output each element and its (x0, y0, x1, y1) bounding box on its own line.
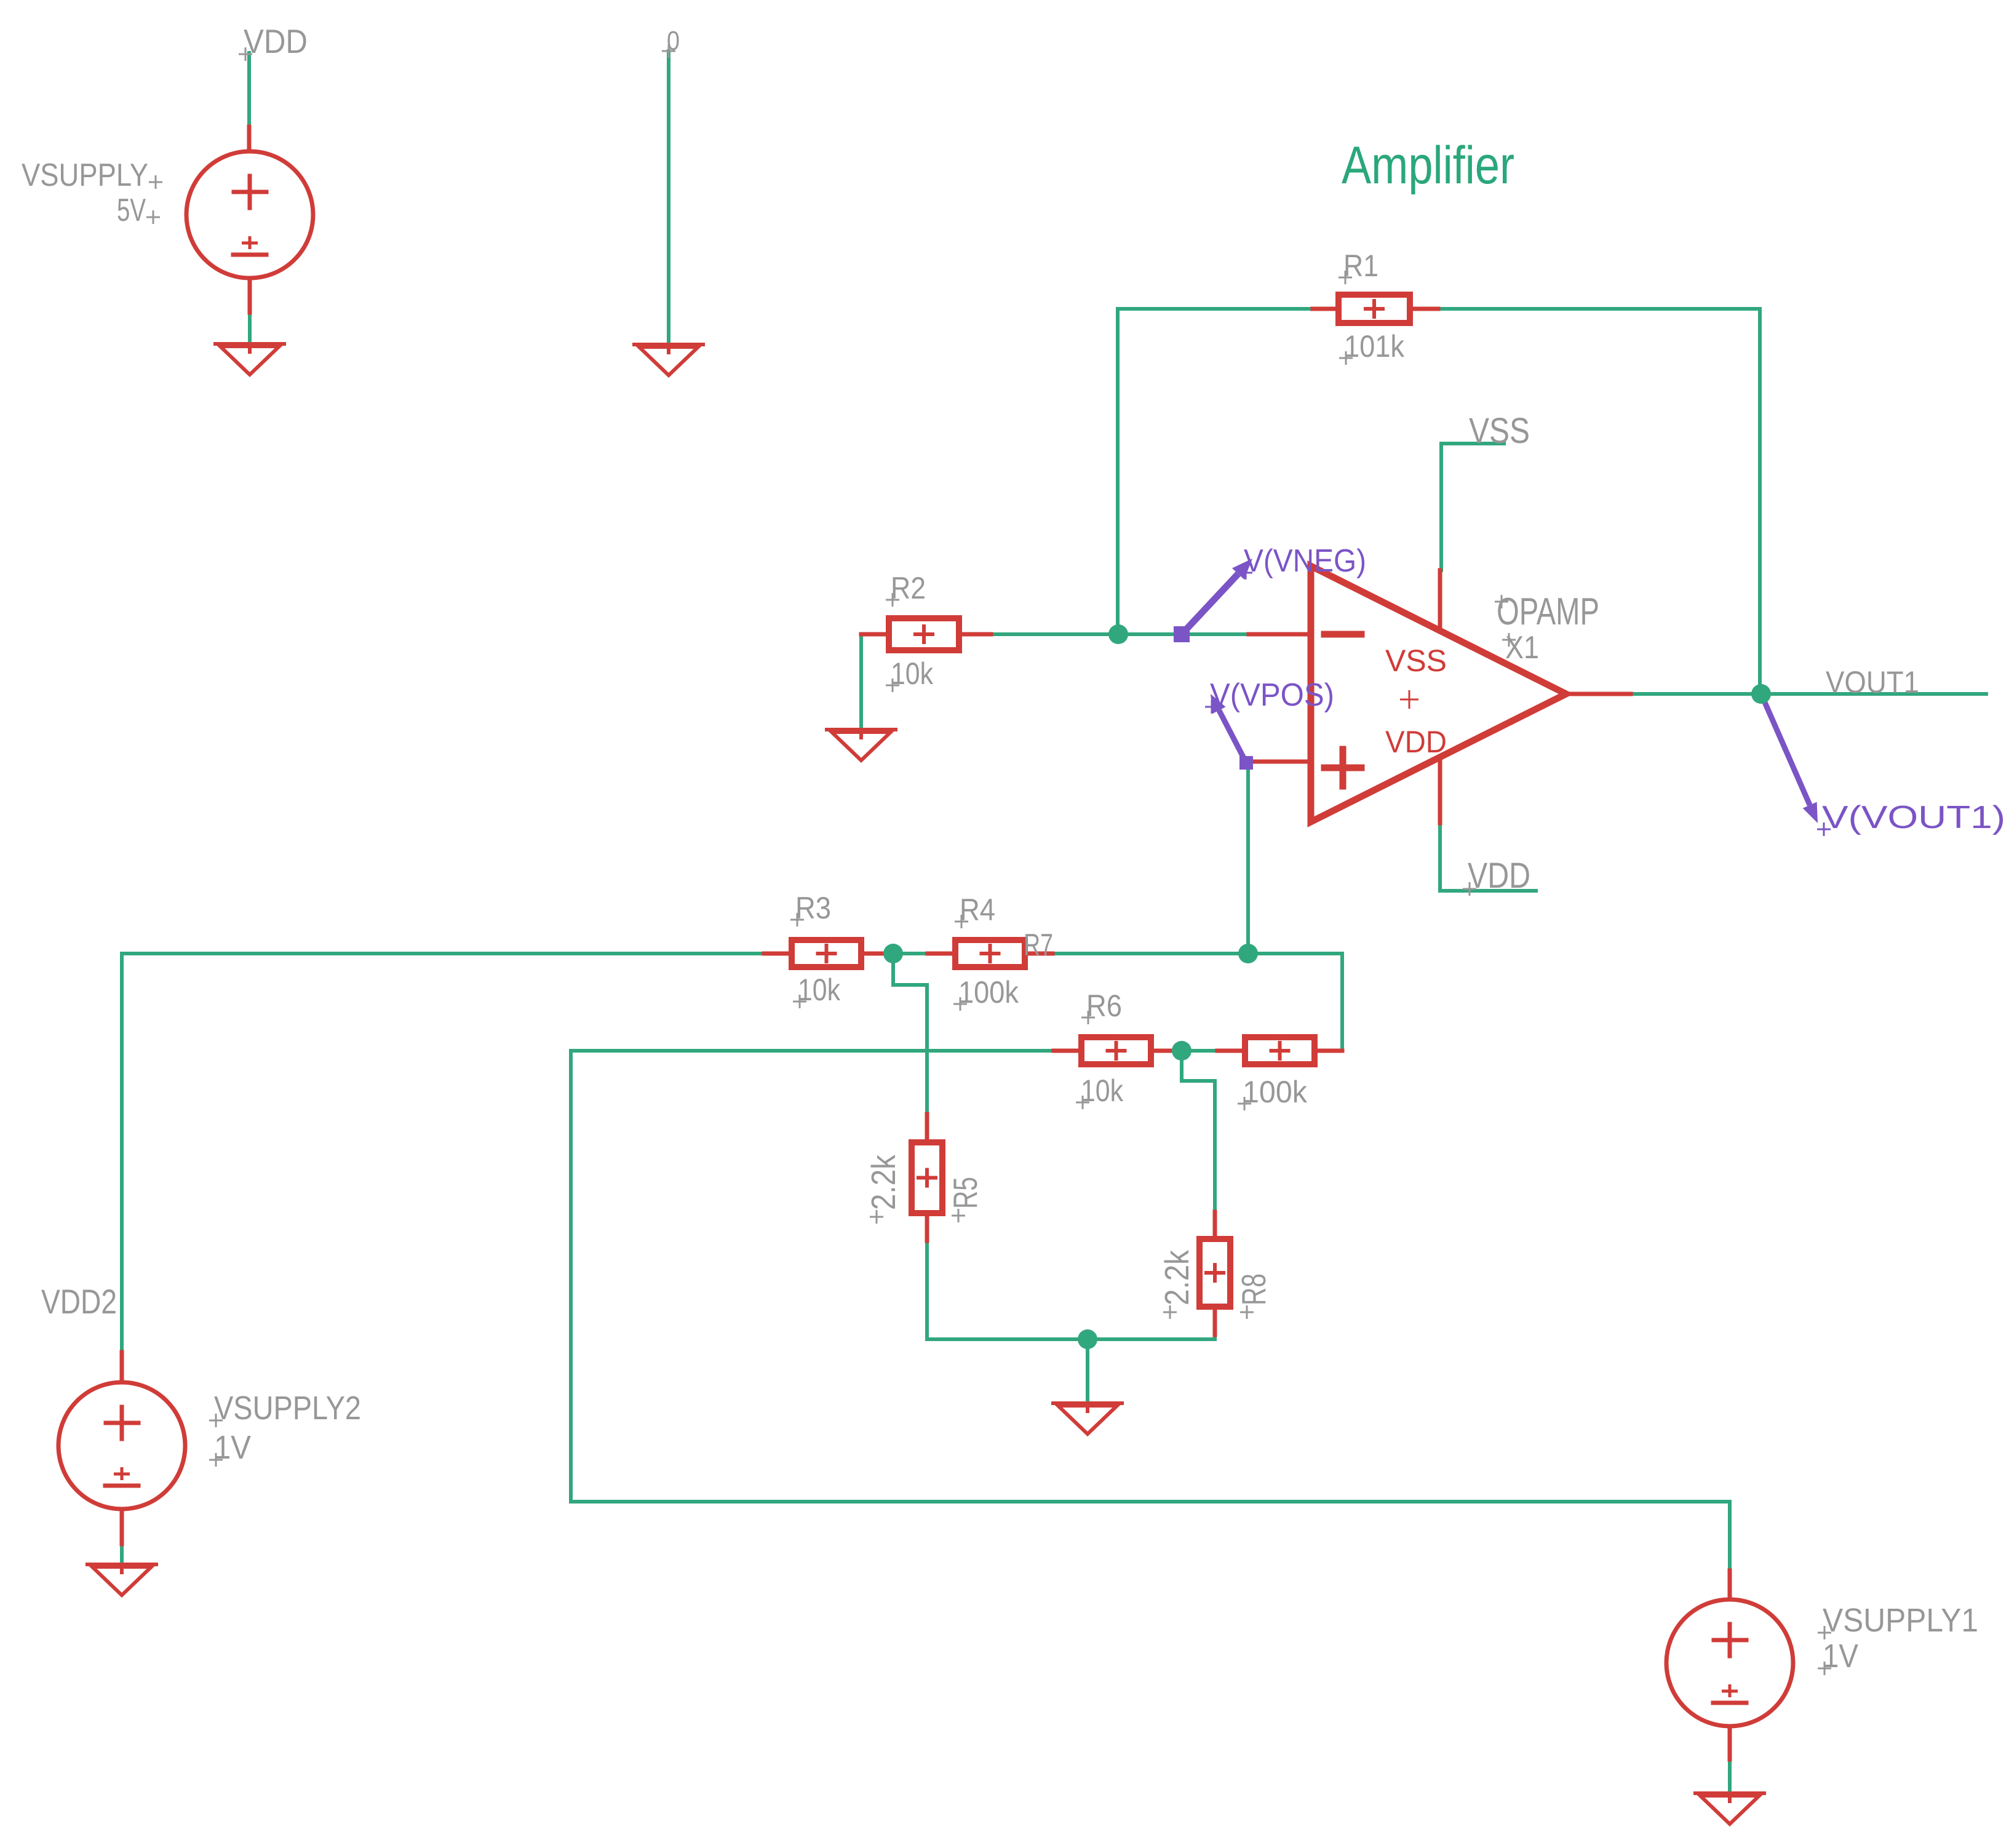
svg-text:VSUPPLY1: VSUPPLY1 (1823, 1602, 1978, 1639)
svg-text:X1: X1 (1505, 630, 1539, 666)
svg-text:R7: R7 (1024, 928, 1053, 962)
svg-text:V(VNEG): V(VNEG) (1244, 543, 1366, 579)
svg-text:VSUPPLY: VSUPPLY (22, 157, 148, 193)
svg-text:Amplifier: Amplifier (1342, 136, 1514, 195)
svg-text:2.2k: 2.2k (864, 1155, 902, 1210)
svg-text:V(VPOS): V(VPOS) (1210, 677, 1334, 713)
svg-text:VSUPPLY2: VSUPPLY2 (214, 1390, 361, 1427)
svg-text:5V: 5V (117, 193, 146, 228)
svg-text:100k: 100k (1243, 1075, 1308, 1109)
svg-text:VOUT1: VOUT1 (1826, 665, 1919, 699)
svg-text:VSS: VSS (1469, 411, 1530, 451)
svg-text:VDD2: VDD2 (41, 1282, 117, 1321)
svg-text:R5: R5 (946, 1177, 984, 1209)
svg-text:OPAMP: OPAMP (1497, 591, 1599, 633)
svg-text:VSS: VSS (1385, 643, 1447, 678)
svg-text:VDD: VDD (1468, 856, 1530, 896)
svg-text:VDD: VDD (1385, 725, 1447, 759)
svg-text:R8: R8 (1235, 1273, 1273, 1305)
svg-text:2.2k: 2.2k (1158, 1250, 1196, 1305)
svg-text:101k: 101k (1344, 329, 1405, 364)
svg-text:VDD: VDD (244, 22, 308, 60)
svg-text:V(VOUT1): V(VOUT1) (1822, 800, 2005, 835)
svg-text:100k: 100k (958, 975, 1019, 1010)
